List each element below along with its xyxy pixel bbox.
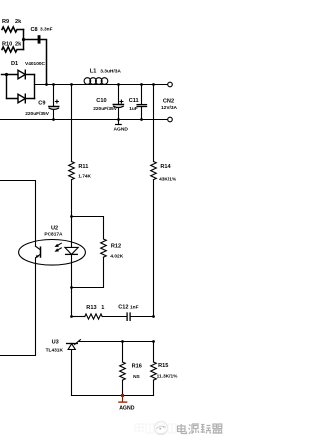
- svg-text:2k: 2k: [15, 42, 22, 48]
- node dot fb-R13: [152, 315, 155, 318]
- ground AGND top label: [114, 126, 129, 132]
- wire R13 left: [72, 316, 85, 318]
- capacitor C9: [49, 85, 59, 120]
- svg-text:V40100C: V40100C: [25, 61, 46, 67]
- svg-text:AGND: AGND: [114, 126, 129, 132]
- resistor R10: [2, 47, 24, 52]
- connector CN2 label: [161, 98, 178, 111]
- svg-text:NS: NS: [133, 374, 140, 380]
- svg-text:11.3K/1%: 11.3K/1%: [157, 374, 179, 380]
- svg-text:2k: 2k: [15, 19, 22, 25]
- resistor R13 label: [86, 305, 104, 311]
- opto U2 light arrows: [57, 243, 61, 250]
- node dot fb-ref: [152, 340, 155, 343]
- capacitor C12: [127, 313, 130, 320]
- wire bottom ground run: [72, 395, 154, 397]
- capacitor C10 label: [93, 98, 118, 112]
- svg-text:1nF: 1nF: [130, 304, 139, 310]
- shunt U3: [67, 340, 81, 396]
- svg-text:AGND: AGND: [119, 405, 135, 411]
- svg-text:U2: U2: [51, 225, 58, 231]
- wire top rail: [35, 84, 168, 86]
- node dot brail-C9: [52, 118, 55, 121]
- svg-text:U3: U3: [52, 339, 59, 345]
- glyph 源: [189, 424, 200, 434]
- svg-text:CN2: CN2: [163, 98, 174, 104]
- resistor R16: [120, 342, 126, 396]
- svg-text:TL431K: TL431K: [46, 348, 64, 354]
- svg-text:R14: R14: [160, 164, 171, 170]
- svg-text:3.3uH/3A: 3.3uH/3A: [100, 68, 121, 74]
- wire LED bottom to R13 node: [71, 288, 73, 317]
- capacitor C10: [113, 85, 123, 120]
- svg-text:R13: R13: [86, 305, 96, 311]
- shunt U3 label: [46, 339, 64, 353]
- diode D1 top: [2, 70, 35, 79]
- node dot brail-C10: [117, 118, 120, 121]
- node dot brail-C11: [140, 118, 143, 121]
- diode D1 bottom: [7, 94, 35, 103]
- svg-text:220uF/35V: 220uF/35V: [25, 111, 50, 117]
- resistor R12: [72, 239, 107, 288]
- svg-text:R10: R10: [2, 42, 12, 48]
- svg-text:R11: R11: [78, 164, 88, 170]
- wire R9/R10 junction vertical: [23, 30, 25, 50]
- svg-text:R16: R16: [132, 364, 142, 370]
- svg-text:1: 1: [101, 305, 104, 311]
- glyph 电: [178, 424, 187, 434]
- connector CN2: [168, 82, 173, 122]
- resistor R9: [2, 27, 24, 32]
- svg-text:1.74K: 1.74K: [78, 174, 91, 180]
- capacitor C8 label: [31, 27, 53, 33]
- wire U3 ref line: [79, 341, 153, 343]
- node dot D1 left: [5, 73, 8, 76]
- wire C8 right down to rail: [41, 40, 47, 85]
- resistor R14: [151, 85, 157, 317]
- node dot rail-R14: [152, 83, 155, 86]
- resistor R11: [69, 85, 75, 217]
- node dot rail-R11: [70, 83, 73, 86]
- opto U2 body: [19, 240, 86, 266]
- glyph 盟: [213, 424, 223, 433]
- wire branch to R12: [72, 217, 104, 240]
- node dot LED bottom junction: [70, 286, 73, 289]
- ground AGND bottom: [119, 396, 127, 403]
- diode D1 label: [11, 61, 46, 67]
- ground AGND bottom label: [119, 405, 135, 411]
- inductor L1: [84, 78, 108, 85]
- glyph 联: [201, 425, 212, 434]
- resistor R12 label: [110, 243, 123, 259]
- svg-text:1uF: 1uF: [129, 106, 138, 112]
- watermark text 电源联盟: [178, 424, 223, 434]
- svg-text:3.3nF: 3.3nF: [40, 27, 53, 33]
- svg-text:L1: L1: [90, 68, 97, 74]
- capacitor C11: [137, 85, 146, 120]
- resistor R13: [85, 314, 102, 319]
- watermark ghost text: [135, 423, 176, 433]
- resistor R15 label: [157, 363, 179, 380]
- node dot R16 top: [121, 340, 124, 343]
- wire to C8: [24, 39, 38, 41]
- node junction dot R9R10: [22, 38, 25, 41]
- node dot rail-C11: [140, 83, 143, 86]
- opto U2 led: [65, 217, 78, 288]
- svg-text:C12: C12: [118, 304, 128, 310]
- node dot rail-C8: [45, 83, 48, 86]
- watermark logo: [155, 422, 168, 435]
- wire C12 right: [131, 316, 154, 318]
- svg-text:220uF/35V: 220uF/35V: [93, 106, 118, 112]
- capacitor C11 label: [129, 98, 139, 112]
- opto U2 emitter arrowhead: [35, 255, 39, 259]
- node dot R13 branch: [70, 315, 73, 318]
- capacitor C8: [38, 35, 41, 43]
- ground AGND top: [116, 120, 122, 125]
- svg-text:43K/1%: 43K/1%: [159, 176, 177, 182]
- resistor R14 label: [159, 164, 177, 182]
- resistor R15: [151, 342, 157, 396]
- svg-text:12V/3A: 12V/3A: [161, 105, 178, 111]
- svg-text:R9: R9: [2, 19, 9, 25]
- svg-text:D1: D1: [11, 61, 18, 67]
- wire bottom rail: [0, 119, 168, 121]
- wire D1 left bracket: [6, 75, 8, 99]
- svg-text:PC817A: PC817A: [44, 231, 63, 237]
- node dot rail-C10: [117, 83, 120, 86]
- svg-text:4.02K: 4.02K: [110, 254, 123, 260]
- svg-text:C9: C9: [38, 100, 45, 106]
- resistor R10 label: [2, 42, 22, 48]
- svg-text:R12: R12: [111, 243, 121, 249]
- wire R13 to C12: [102, 316, 126, 318]
- svg-text:C8: C8: [31, 27, 38, 33]
- opto U2 label: [44, 225, 63, 237]
- resistor R9 label: [2, 19, 22, 25]
- wire left top to opto collector: [0, 181, 36, 247]
- node dot rail-C9: [52, 83, 55, 86]
- opto U2 transistor: [0, 246, 41, 355]
- node dot LED-R12 branch: [70, 215, 73, 218]
- capacitor C12 label: [118, 304, 138, 310]
- inductor L1 label: [90, 68, 122, 74]
- wire D1 right bracket: [34, 75, 36, 99]
- resistor R11 label: [78, 164, 91, 180]
- node dot AGND: [121, 394, 124, 397]
- capacitor C9 label: [25, 100, 50, 117]
- svg-text:C10: C10: [96, 98, 106, 104]
- svg-text:C11: C11: [129, 98, 139, 104]
- svg-text:R15: R15: [158, 363, 168, 369]
- resistor R16 label: [132, 364, 142, 380]
